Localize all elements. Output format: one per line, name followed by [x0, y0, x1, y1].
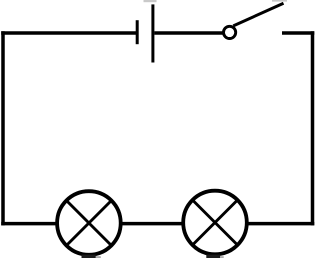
switch S1 pivot contact (open circle)	[224, 26, 236, 38]
lamp L2 cross stroke 2	[193, 200, 238, 245]
wire: battery to switch	[154, 31, 223, 35]
lamp L1 circle	[57, 191, 121, 255]
wire: top-left horizontal from left corner to battery	[1, 31, 136, 35]
cropped grey artifact above switch lever tip	[272, 0, 287, 2]
lamp L2 cross stroke 1	[193, 200, 238, 245]
lamp L2 circle	[183, 191, 247, 255]
wire: left vertical side	[1, 31, 5, 225]
wire: top-right horizontal from switch fixed contact to right corner	[282, 31, 314, 35]
lamp L1 cross stroke 2	[66, 201, 111, 246]
wire: bottom left segment	[1, 222, 57, 226]
lamp L1 cross stroke 1	[66, 201, 111, 246]
battery B1 short plate (negative terminal)	[136, 20, 139, 44]
cropped dark artifact below lamp L2	[206, 255, 220, 258]
cropped grey artifact above battery	[144, 0, 157, 2]
cropped dark artifact below lamp L1	[82, 255, 96, 258]
battery B1 long plate (positive terminal)	[151, 4, 154, 62]
wire: bottom right segment	[246, 222, 314, 226]
wire: bottom middle segment between lamps	[120, 222, 184, 226]
wire: right vertical side	[311, 31, 315, 225]
switch S1 lever (open)	[233, 3, 283, 26]
